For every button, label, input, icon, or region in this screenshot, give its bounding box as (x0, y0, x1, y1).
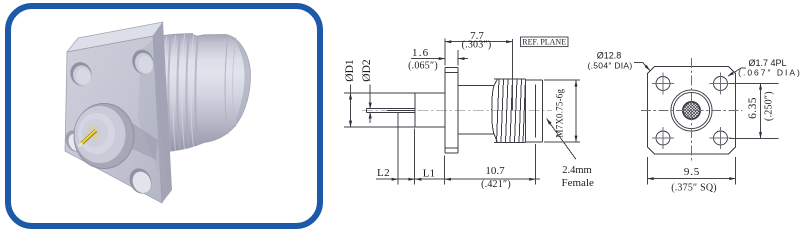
svg-text:Ø12.8: Ø12.8 (597, 51, 622, 61)
svg-text:2.4mm: 2.4mm (562, 165, 591, 176)
svg-text:REF. PLANE: REF. PLANE (522, 38, 566, 47)
svg-text:L2: L2 (377, 167, 390, 179)
svg-text:(.250″): (.250″) (764, 91, 775, 121)
svg-text:(.421″): (.421″) (481, 179, 511, 190)
svg-text:(.504″ DIA): (.504″ DIA) (587, 61, 632, 71)
svg-text:(.065″): (.065″) (408, 60, 438, 71)
svg-text:6.35: 6.35 (747, 97, 759, 119)
svg-text:1.6: 1.6 (412, 47, 429, 59)
svg-text:L1: L1 (423, 167, 435, 179)
svg-text:ØD2: ØD2 (361, 59, 373, 82)
svg-text:10.7: 10.7 (485, 165, 505, 177)
svg-text:M7X0.75-6g: M7X0.75-6g (554, 89, 564, 138)
svg-text:(.067″ DIA): (.067″ DIA) (738, 67, 802, 77)
svg-text:Female: Female (562, 177, 594, 189)
svg-text:(.375″ SQ): (.375″ SQ) (671, 183, 717, 194)
svg-text:ØD1: ØD1 (344, 59, 356, 82)
svg-text:(.303″): (.303″) (462, 40, 492, 51)
svg-text:9.5: 9.5 (684, 166, 700, 178)
